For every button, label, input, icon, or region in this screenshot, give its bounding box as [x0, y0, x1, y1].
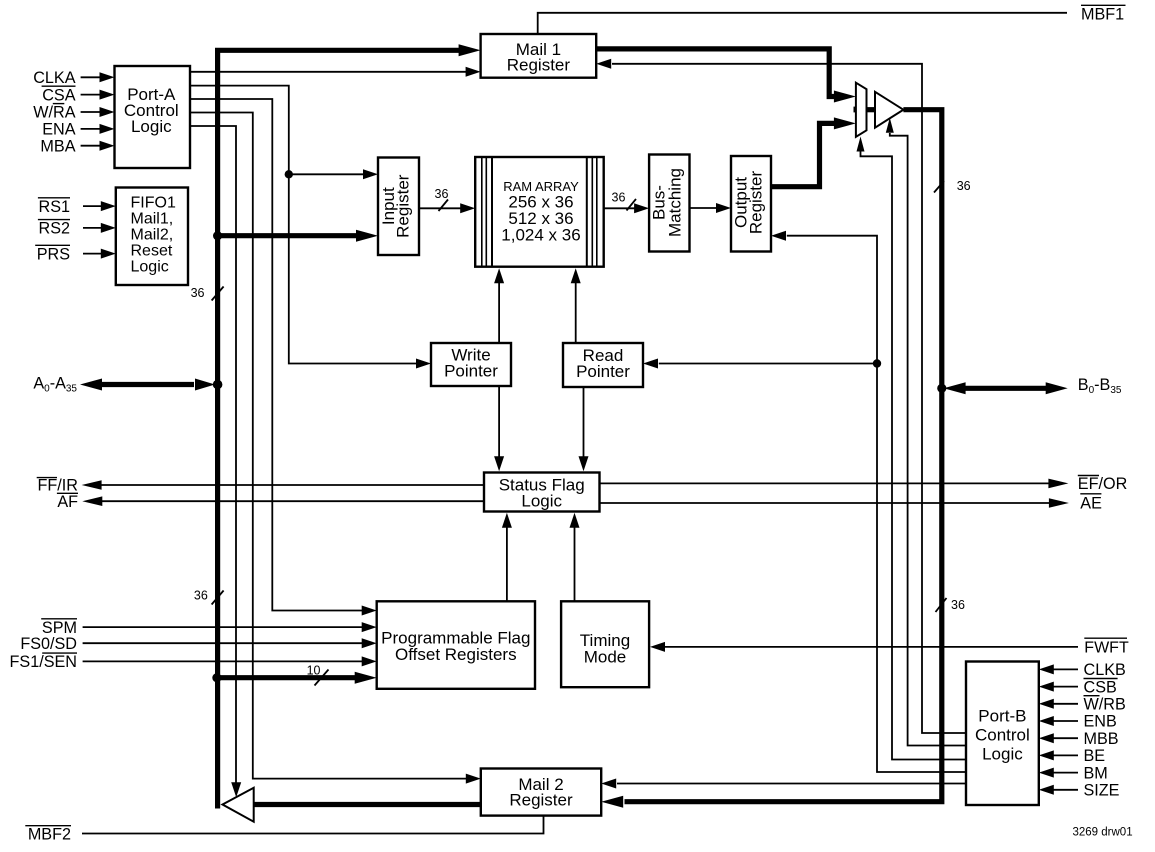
- wire FS1/SEN input: [83, 656, 377, 666]
- wire Read Pointer to Status Flag Logic: [579, 387, 589, 471]
- svg-text:Port-B: Port-B: [978, 707, 1026, 726]
- svg-text:Mail2,: Mail2,: [131, 226, 174, 243]
- port B0-B35 bidirectional (thick): [944, 382, 1068, 394]
- block Mail 1 Register: [481, 34, 597, 78]
- block Read Pointer: [563, 343, 643, 387]
- svg-text:Register: Register: [509, 791, 573, 810]
- slash 36 B-bus lower: [936, 598, 947, 612]
- mux 2-to-1 select symbol: [854, 83, 876, 137]
- wire SPM input: [83, 622, 377, 632]
- bus wire to Programmable Flag Offset Registers (10): [217, 672, 377, 684]
- wire PRS input: [83, 249, 116, 259]
- label W/RA (overline on R): [33, 104, 75, 122]
- svg-text:Matching: Matching: [666, 168, 685, 237]
- wire to Input Register top: [289, 169, 378, 179]
- svg-text:1,024 x 36: 1,024 x 36: [501, 226, 580, 245]
- svg-text:ENA: ENA: [42, 121, 75, 139]
- svg-text:Logic: Logic: [982, 745, 1023, 764]
- label FWFT (overline): [1084, 638, 1129, 656]
- svg-text:Register: Register: [394, 174, 413, 238]
- svg-text:Pointer: Pointer: [576, 362, 630, 381]
- block FIFO1 Mail1 Mail2 Reset Logic: [116, 188, 188, 286]
- block RAM ARRAY: [475, 157, 604, 267]
- wire FF/IR output: [82, 480, 484, 490]
- tri-state output buffer A-port (Mail2): [223, 788, 254, 822]
- svg-text:Mail1,: Mail1,: [131, 210, 174, 227]
- net MBF1 (stub from Mail1 top): [538, 13, 1067, 34]
- label MBB: [1084, 730, 1119, 748]
- label PRS (overline): [35, 245, 70, 263]
- label CSB: [1084, 678, 1118, 696]
- svg-text:36: 36: [191, 286, 205, 300]
- wire Port-A to Mail1 (write ctrl): [190, 67, 481, 77]
- bus width slash 10: [315, 670, 329, 686]
- wire BE input: [1039, 750, 1078, 760]
- svg-text:CLKB: CLKB: [1084, 661, 1126, 679]
- wire W/RA input: [81, 107, 115, 117]
- svg-text:BM: BM: [1084, 764, 1108, 782]
- svg-text:3269 drw01: 3269 drw01: [1073, 827, 1133, 839]
- svg-text:Reset: Reset: [131, 242, 173, 259]
- label W/RB: [1084, 696, 1126, 714]
- svg-text:BE: BE: [1084, 747, 1106, 765]
- block Mail 2 Register: [481, 769, 601, 816]
- wire Port-A to Input Register / Write Pointer (via x288): [190, 86, 431, 369]
- svg-text:MBB: MBB: [1084, 730, 1119, 748]
- svg-text:FWFT: FWFT: [1084, 640, 1129, 657]
- svg-text:CLKA: CLKA: [33, 69, 75, 87]
- svg-text:Offset Registers: Offset Registers: [395, 645, 517, 664]
- label 36 input-ram: [435, 187, 449, 201]
- wire Port-B to Output Register / Read Pointer: [771, 231, 966, 772]
- wire W/RB input: [1039, 699, 1078, 709]
- label FF/IR (overline FF): [37, 477, 78, 495]
- bus wire to Input Register (36): [218, 230, 378, 242]
- wire Timing Mode to Status Flag: [570, 513, 580, 602]
- svg-text:MBF1: MBF1: [1081, 6, 1124, 24]
- wire Write Pointer to Status Flag Logic: [494, 386, 504, 471]
- wire Port-A to Mail2 Register (via x252): [190, 113, 481, 784]
- tri-state output buffer B-port: [875, 92, 903, 128]
- label B0-B35: [1078, 376, 1122, 396]
- label ENA: [42, 121, 75, 139]
- svg-text:36: 36: [951, 598, 965, 612]
- svg-text:36: 36: [612, 191, 626, 205]
- wire FS0/SD input: [83, 638, 377, 648]
- block Status Flag Logic: [484, 473, 600, 512]
- block Programmable Flag Offset Registers: [377, 601, 535, 689]
- block Port-B Control Logic U-B: [966, 662, 1039, 806]
- slash 36 input-ram: [439, 200, 449, 212]
- label SIZE: [1084, 782, 1120, 800]
- label EF/OR (overline EF): [1078, 475, 1127, 493]
- net MBF2 (stub from Mail2 bottom): [82, 816, 544, 834]
- label BM: [1084, 764, 1108, 782]
- wire Programmable Flag to Status Flag: [502, 513, 512, 602]
- wire Read Pointer to RAM: [571, 268, 581, 343]
- label MBF1 (overline): [1081, 5, 1126, 23]
- wire Port-B to Mail1 Register: [596, 59, 966, 733]
- wire CLKA input: [81, 72, 115, 82]
- svg-text:MBF2: MBF2: [28, 826, 71, 844]
- svg-text:Logic: Logic: [131, 117, 172, 136]
- label SPM (overline): [41, 619, 77, 637]
- wire CSB input: [1039, 682, 1078, 692]
- label FS1/SEN (overline SEN): [10, 653, 77, 671]
- label 36 upper-left: [191, 286, 205, 300]
- label 36 ram-bus: [612, 191, 626, 205]
- junction dot read-pointer ctrl: [873, 359, 881, 367]
- junction dot bus to Input Register: [213, 231, 222, 240]
- wire CLKB input: [1039, 664, 1078, 674]
- svg-text:AF: AF: [57, 493, 78, 511]
- wire Port-B to Mail2 Register: [601, 779, 966, 789]
- wire Mail2 to output buffer (thick): [254, 802, 481, 807]
- svg-text:36: 36: [194, 588, 208, 602]
- wire Bus-Matching to Output Register: [690, 203, 732, 213]
- svg-text:FIFO1: FIFO1: [131, 194, 176, 211]
- label AF (overline): [57, 493, 78, 511]
- wire Output Register to mux (thick): [771, 117, 856, 186]
- wire MBB input: [1039, 733, 1078, 743]
- svg-text:Logic: Logic: [521, 491, 562, 510]
- svg-text:36: 36: [957, 179, 971, 193]
- svg-text:Mode: Mode: [584, 648, 627, 667]
- label drawing number 3269 drw01: [1073, 827, 1133, 839]
- wire MBA input: [81, 141, 115, 151]
- wire Port-A to Programmable Flag Offset Registers (via x272): [190, 99, 377, 616]
- svg-text:SIZE: SIZE: [1084, 782, 1120, 800]
- svg-text:PRS: PRS: [37, 245, 70, 263]
- label AE (overline): [1080, 494, 1102, 513]
- label RS2 (overline): [38, 220, 70, 238]
- block Bus-Matching (rotated): [649, 155, 689, 252]
- label ENB: [1084, 713, 1117, 731]
- wire FWFT to Timing Mode: [650, 642, 1078, 652]
- svg-text:RS1: RS1: [39, 198, 71, 216]
- wire CSA input: [81, 90, 115, 100]
- junction dot bus to offset registers: [212, 673, 221, 682]
- svg-text:EF/OR: EF/OR: [1078, 475, 1127, 493]
- label MBF2 (overline): [25, 826, 71, 844]
- svg-text:FS1/SEN: FS1/SEN: [10, 653, 77, 671]
- wire AF output: [82, 496, 484, 506]
- svg-text:Pointer: Pointer: [444, 362, 498, 381]
- label RS1 (overline): [38, 198, 70, 216]
- wire mux select from Port-B: [857, 137, 967, 760]
- wire SIZE input: [1039, 785, 1078, 795]
- svg-text:W/RB: W/RB: [1084, 696, 1126, 714]
- label CSA (overline): [42, 86, 76, 104]
- svg-text:FS0/SD: FS0/SD: [20, 635, 77, 653]
- label BE: [1084, 747, 1106, 765]
- wire Mail1 to mux (thick): [596, 49, 856, 103]
- label CLKB: [1084, 661, 1126, 679]
- junction dot input-reg ctrl: [285, 170, 293, 178]
- label A0-A35: [33, 375, 77, 395]
- block Output Register (rotated): [731, 156, 771, 252]
- block Write Pointer: [431, 343, 511, 386]
- slash 36 ram-bus: [627, 199, 637, 211]
- wire Input Register to RAM (36): [419, 203, 475, 213]
- wire RS2 input: [83, 223, 116, 233]
- wire ENA input: [81, 124, 115, 134]
- wire Port-A to Mail2 output buffer enable (via x236): [190, 126, 241, 797]
- svg-text:Register: Register: [747, 171, 766, 235]
- label 36 lower-left: [194, 588, 208, 602]
- block Input Register (rotated): [378, 158, 419, 256]
- wire Write Pointer to RAM: [494, 268, 504, 343]
- block Port-A Control Logic U-A: [115, 66, 191, 168]
- wire to Read Pointer: [643, 359, 877, 369]
- svg-text:AE: AE: [1080, 495, 1102, 513]
- svg-text:10: 10: [307, 664, 321, 678]
- svg-text:RS2: RS2: [39, 220, 71, 238]
- wire ENB input: [1039, 716, 1078, 726]
- wire RAM to Bus-Matching (36): [604, 203, 649, 213]
- bus width slash 36 (lower): [212, 591, 224, 605]
- svg-text:ENB: ENB: [1084, 713, 1117, 731]
- port A0-A35 bidirectional (thick): [80, 379, 215, 391]
- slash 36 B-bus upper: [934, 181, 944, 193]
- svg-text:CSB: CSB: [1084, 678, 1117, 696]
- bus B-port data (thick, buffer out to Mail2): [601, 110, 942, 808]
- svg-text:Logic: Logic: [131, 258, 169, 275]
- bus A-port data (thick vertical x217.6): [218, 44, 481, 808]
- label MBA: [40, 137, 75, 155]
- bus width slash 36 (upper): [212, 287, 224, 301]
- svg-text:CSA: CSA: [42, 86, 75, 104]
- wire BM input: [1039, 768, 1078, 778]
- label CLKA: [33, 69, 75, 87]
- wire buffer enable from Port-B: [886, 118, 966, 746]
- label FS0/SD: [20, 635, 77, 653]
- junction dot B0-B35: [937, 384, 946, 393]
- label 10: [307, 664, 321, 678]
- svg-text:MBA: MBA: [40, 137, 75, 155]
- label 36 B-bus lower: [951, 598, 965, 612]
- svg-text:36: 36: [435, 187, 449, 201]
- wire AE output: [600, 498, 1069, 508]
- svg-text:Register: Register: [507, 56, 571, 75]
- wire RS1 input: [83, 201, 116, 211]
- wire EF/OR output: [600, 479, 1069, 489]
- svg-text:Control: Control: [975, 726, 1030, 745]
- block Timing Mode: [561, 601, 649, 687]
- svg-text:W/RA: W/RA: [33, 104, 75, 122]
- label 36 B-bus upper: [957, 179, 971, 193]
- junction dot bus A0-A35: [213, 380, 223, 390]
